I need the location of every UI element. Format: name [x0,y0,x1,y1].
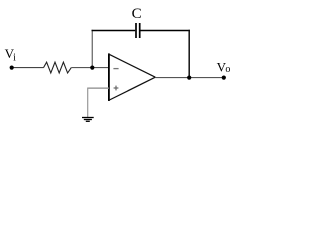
svg-text:i: i [13,53,16,64]
svg-text:o: o [225,64,230,75]
svg-text:C: C [132,6,142,22]
